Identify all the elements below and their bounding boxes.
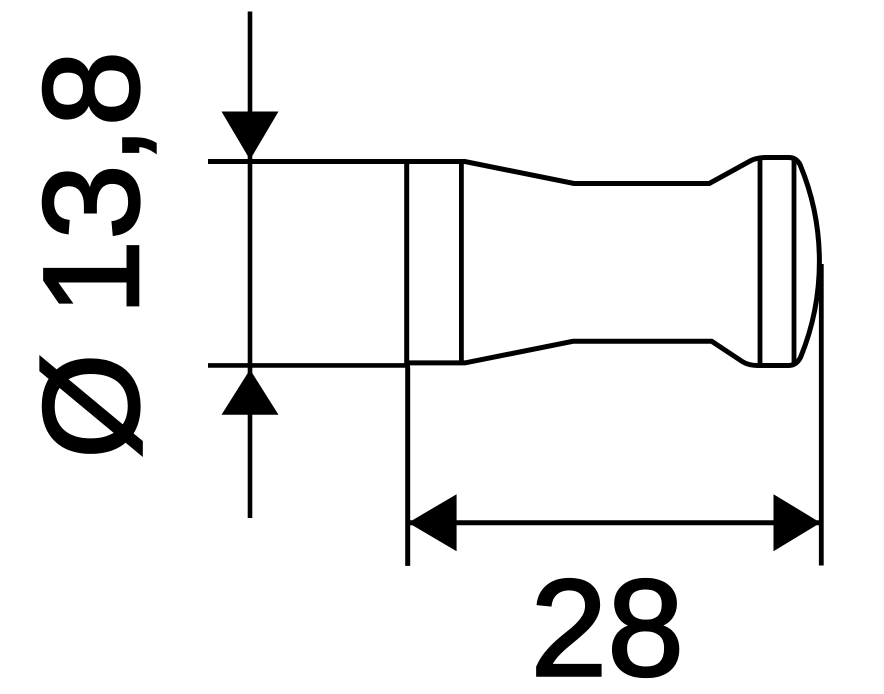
svg-text:28: 28 <box>531 552 685 694</box>
svg-text:Ø 13,8: Ø 13,8 <box>15 51 167 459</box>
